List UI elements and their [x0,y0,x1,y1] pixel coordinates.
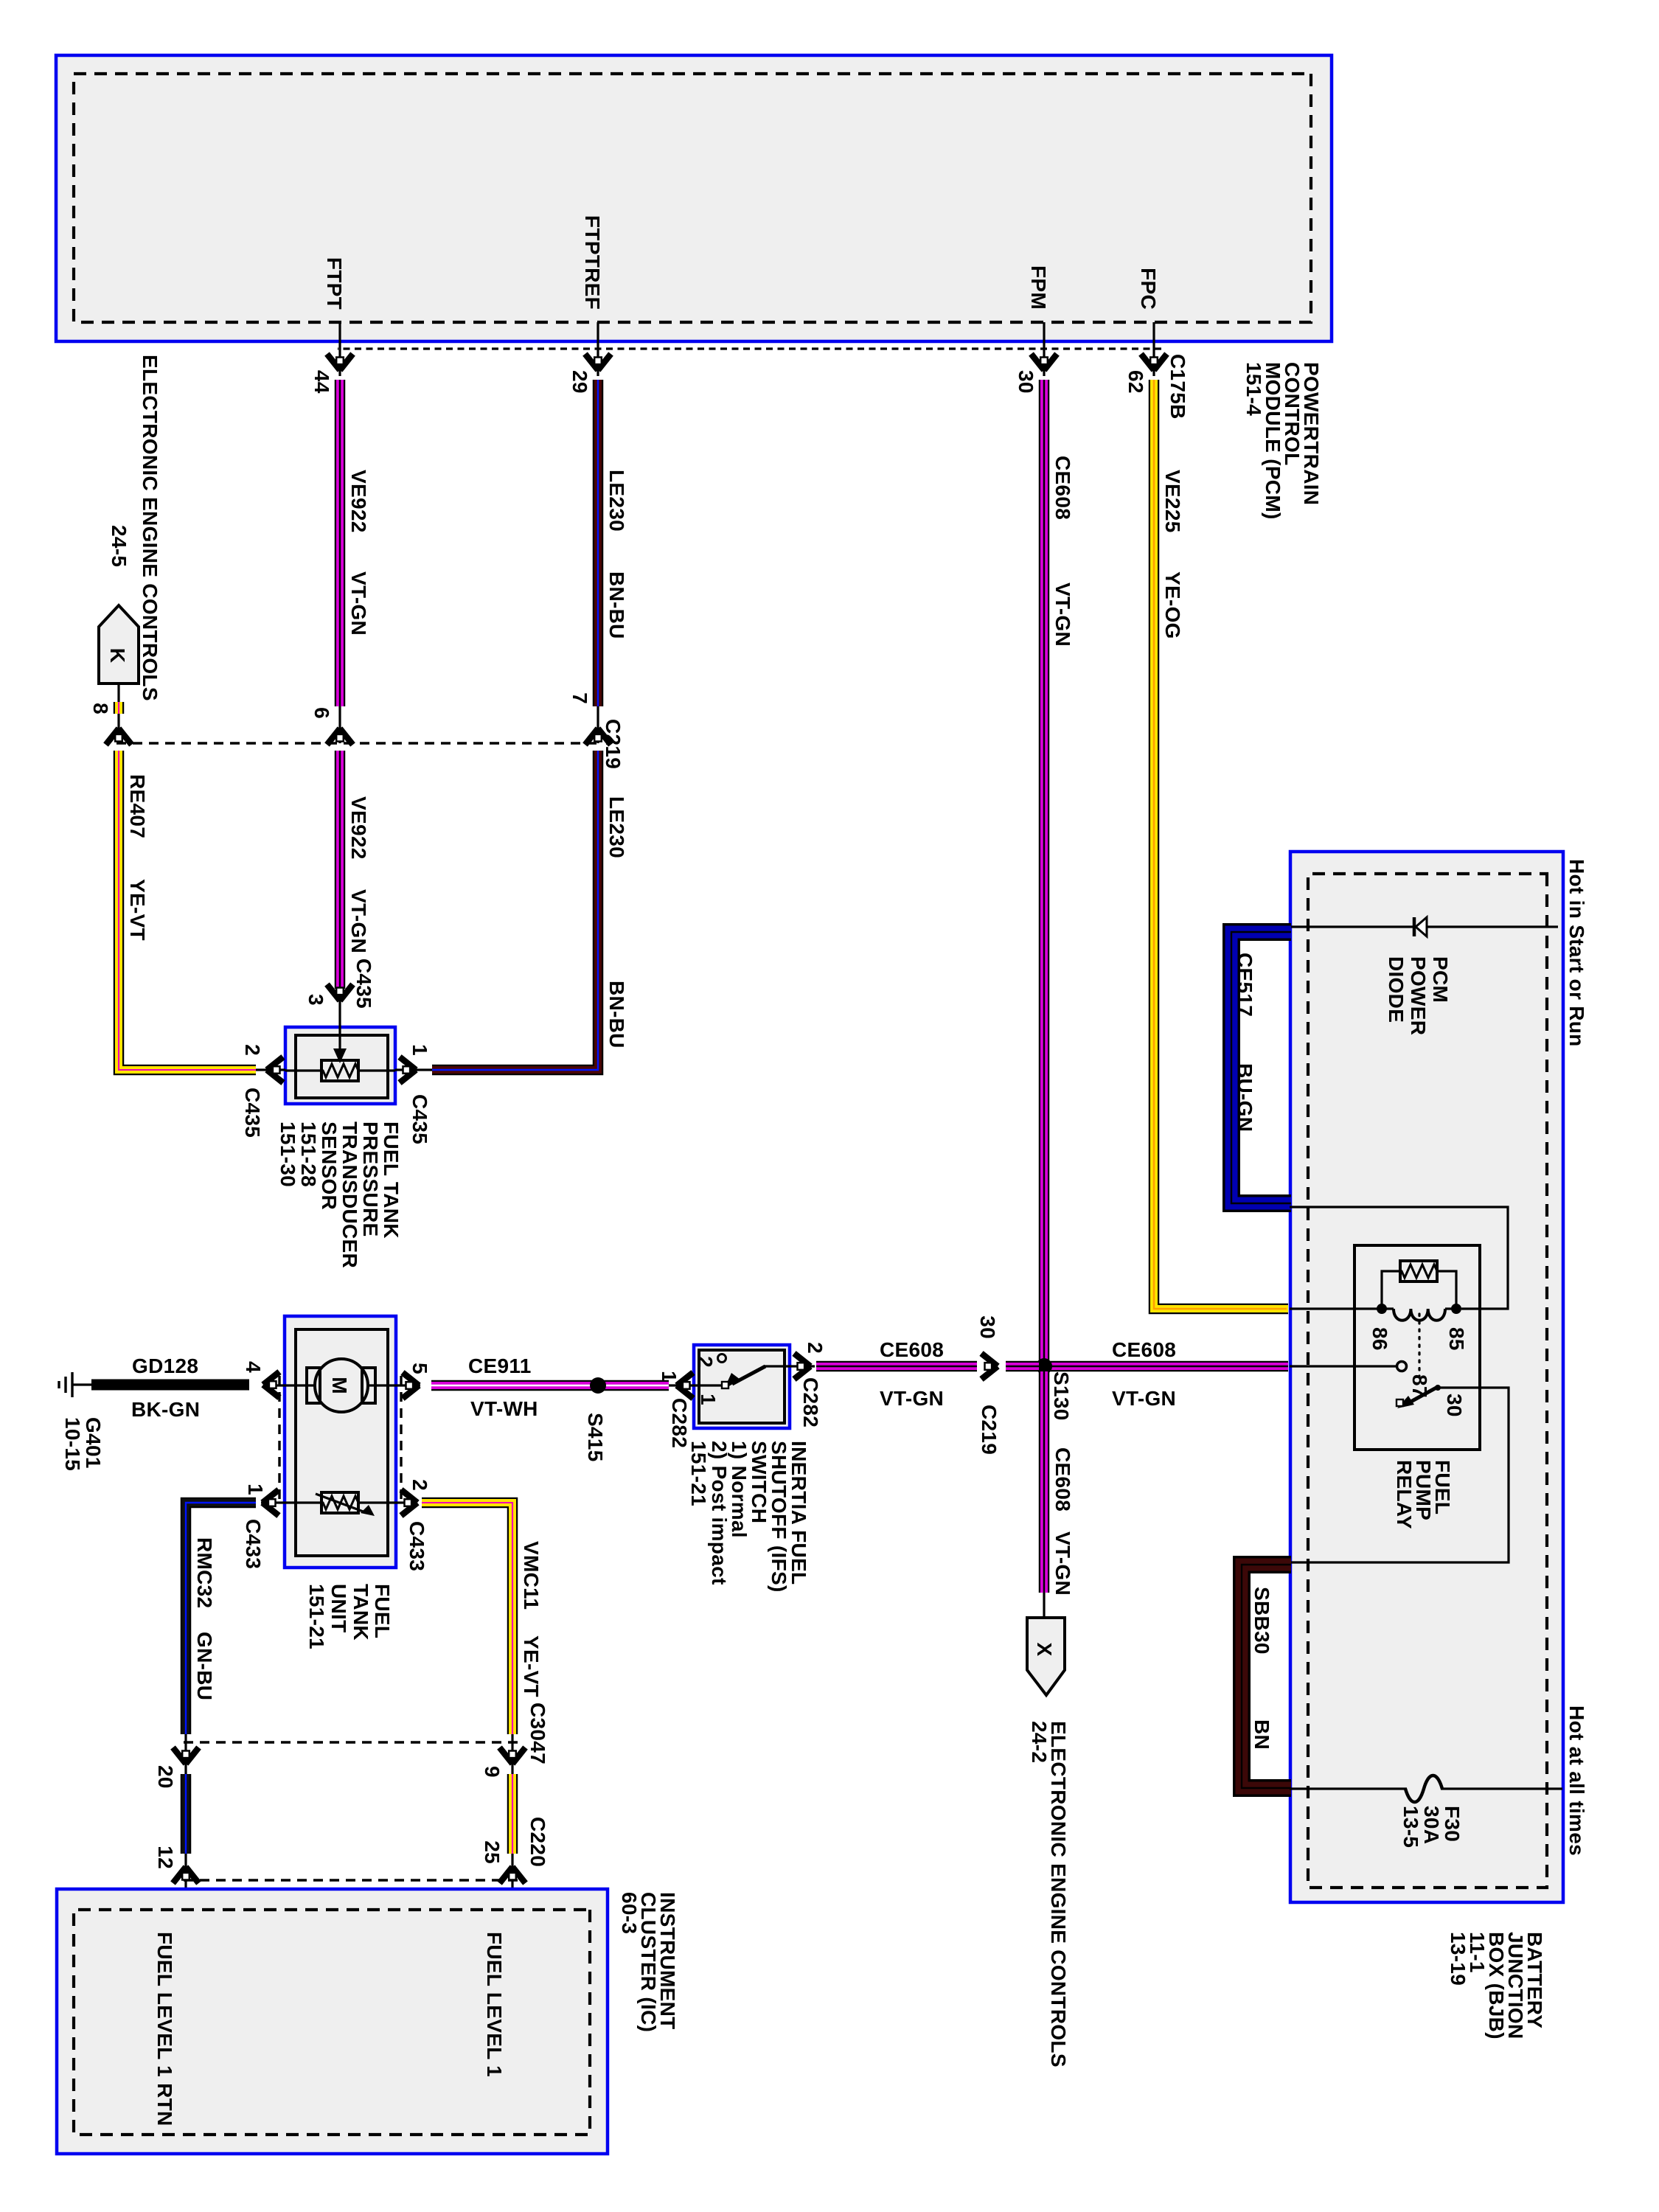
svg-text:CE608: CE608 [1051,1447,1074,1512]
svg-text:TRANSDUCER: TRANSDUCER [338,1121,361,1268]
svg-text:S130: S130 [1050,1371,1073,1421]
svg-text:7: 7 [568,692,591,704]
svg-text:UNIT: UNIT [327,1584,350,1633]
connector C175B dashed line [338,347,1161,349]
svg-text:FUEL LEVEL 1 RTN: FUEL LEVEL 1 RTN [153,1932,176,2126]
splice S130 [1036,1358,1073,1421]
svg-text:C220: C220 [526,1817,549,1867]
svg-text:FTPT: FTPT [323,257,346,310]
svg-text:1: 1 [244,1484,267,1495]
svg-text:VMC11: VMC11 [520,1541,543,1610]
C3047 in-line connector dashed line [180,1741,518,1743]
svg-text:GD128: GD128 [132,1354,198,1377]
svg-text:X: X [1033,1643,1056,1657]
svg-text:YE-VT: YE-VT [126,879,149,941]
svg-text:RE407: RE407 [126,774,149,838]
svg-text:POWER: POWER [1407,956,1430,1035]
wire GD128 BK-GN (pin 4 to ground G401) [91,1380,249,1391]
fuel tank pressure transducer sensor box [285,1027,395,1104]
svg-text:SENSOR: SENSOR [318,1121,341,1210]
svg-text:1: 1 [697,1394,720,1405]
svg-text:CE608: CE608 [1051,456,1074,520]
svg-text:YE-OG: YE-OG [1161,571,1184,639]
fuel tank unit pin 5 [403,1363,431,1398]
svg-text:4: 4 [242,1361,265,1373]
fuel tank unit pin 2 C433 [401,1479,431,1571]
svg-text:2: 2 [241,1044,264,1056]
svg-text:25: 25 [481,1840,504,1864]
svg-text:86: 86 [1368,1327,1391,1351]
connector K (to electronic engine controls 24-5) [99,605,139,702]
C219 in-line connector dashed line [116,742,597,744]
C219 pin 7 arrow [568,692,611,745]
F30 30A 13-5 label [1399,1806,1464,1848]
svg-text:30A: 30A [1420,1806,1443,1844]
svg-text:SWITCH: SWITCH [748,1441,771,1523]
svg-text:2: 2 [408,1479,431,1491]
wire CE517 BU-GN loop (diode to relay pin 85) [1231,932,1291,1203]
svg-text:FUEL: FUEL [371,1584,394,1638]
relay switch blade pin 30 [1397,1385,1466,1417]
svg-text:6: 6 [310,707,333,719]
svg-text:VT-WH: VT-WH [470,1397,538,1420]
svg-text:151-28: 151-28 [297,1121,320,1187]
svg-text:1) Normal: 1) Normal [728,1441,751,1538]
svg-text:FPM: FPM [1027,265,1050,310]
connector X (to electronic engine controls 24-2) [1027,1593,1065,1695]
wire stub YE-VT at K pin 8 [114,702,125,714]
svg-text:ELECTRONIC ENGINE CONTROLS: ELECTRONIC ENGINE CONTROLS [1047,1721,1070,2067]
svg-text:85: 85 [1445,1327,1468,1351]
svg-text:C433: C433 [242,1519,265,1569]
svg-text:C3047: C3047 [526,1703,549,1764]
wire RMC32 GN-BU (fuel tank unit pin 1 to C3047) [186,1503,256,1734]
svg-text:BN-BU: BN-BU [605,981,628,1048]
C219 pin 6 arrow [310,706,353,745]
PCM label [1242,362,1323,520]
svg-text:151-21: 151-21 [687,1441,710,1506]
svg-text:K: K [106,648,129,664]
IFS switch pin 1 C282 [658,1371,694,1448]
svg-text:CE608: CE608 [1112,1338,1176,1361]
svg-text:C175B: C175B [1166,354,1189,420]
fuse F30 30A line [1290,1775,1562,1802]
ground G401 symbol [59,1372,91,1397]
svg-text:13-19: 13-19 [1447,1932,1470,1986]
svg-text:VT-GN: VT-GN [1112,1387,1176,1410]
PCM power diode line [1290,925,1558,928]
BJB inner dashed outline [1308,874,1547,1888]
svg-text:RMC32: RMC32 [193,1537,216,1608]
svg-text:C282: C282 [799,1377,822,1427]
svg-text:CE608: CE608 [880,1338,944,1361]
sensor pin 3 arrow C435 [305,959,375,1027]
PCM power diode symbol [1414,917,1427,936]
svg-text:Hot at all times: Hot at all times [1565,1705,1588,1856]
svg-text:M: M [328,1377,351,1394]
svg-text:2: 2 [694,1356,717,1368]
svg-text:24-5: 24-5 [108,525,131,567]
svg-text:44: 44 [310,370,333,394]
PCM pin FPM 30 [1015,265,1057,394]
PCM pin FTPT 44 [310,257,353,394]
svg-text:YE-VT: YE-VT [520,1635,543,1697]
relay coil parallel resistor [1382,1261,1456,1309]
fuel pump motor M [276,1359,420,1412]
sensor name label [276,1121,403,1268]
BJB label [1447,1932,1546,2039]
svg-text:20: 20 [154,1765,177,1789]
ELECTRONIC ENGINE CONTROLS 24-2 label [1028,1721,1070,2067]
wire VE922 VT-GN segment A (FTPT to C219 pin 6) [335,380,346,706]
svg-text:C219: C219 [602,719,625,769]
svg-text:13-5: 13-5 [1399,1806,1422,1848]
fuel tank unit box [285,1316,396,1568]
svg-text:29: 29 [568,370,591,394]
svg-text:FUEL TANK: FUEL TANK [380,1121,403,1239]
wire CE608 VT-GN (S130 up arm to relay pin 87) [1049,1361,1288,1372]
svg-text:2: 2 [804,1342,827,1354]
wire CE608 VT-GN (S130 right arm to X connector) [1039,1371,1050,1593]
svg-text:30: 30 [1443,1394,1466,1417]
FUEL PUMP RELAY label [1393,1460,1454,1529]
wire VE922 VT-GN segment B (C219 to sensor pin 3) [335,751,346,989]
relay coil with pins 85/86 [1290,1304,1468,1351]
svg-text:PCM: PCM [1429,956,1452,1003]
wire LE230 BN-BU segment A (FTPTREF to C219 pin 7) [593,380,604,706]
svg-text:C435: C435 [241,1088,264,1138]
svg-text:RELAY: RELAY [1393,1460,1416,1529]
ELECTRONIC ENGINE CONTROLS 24-5 label [108,355,161,701]
sensor internal: pressure transducer resistor [285,1027,395,1081]
svg-text:VE225: VE225 [1161,470,1184,533]
svg-text:9: 9 [481,1766,504,1778]
svg-text:3: 3 [305,994,327,1006]
fuel level sender variable resistor [261,1492,413,1516]
svg-text:GN-BU: GN-BU [193,1632,216,1700]
fuel tank unit label [305,1584,394,1649]
svg-text:LE230: LE230 [605,470,628,532]
G401 10-15 label [61,1417,105,1471]
fuel tank unit pin 4 [242,1361,279,1397]
svg-text:Hot in Start or Run: Hot in Start or Run [1565,859,1588,1047]
splice S415 [584,1377,607,1462]
relay pin 87 terminal [1397,1362,1432,1398]
svg-text:VT-GN: VT-GN [347,889,370,953]
wire VE225 YE-OG (FPC to relay coil 86) [1154,380,1288,1309]
svg-text:1: 1 [408,1044,431,1056]
svg-text:TANK: TANK [349,1584,372,1641]
wire VMC11 YE-VT (fuel tank unit pin 2 to C3047) [422,1503,512,1734]
svg-text:62: 62 [1124,370,1147,394]
wire CE608 VT-GN (FPM to S130) [1039,380,1050,1364]
svg-text:24-2: 24-2 [1028,1721,1051,1763]
PCM inner dashed outline [74,74,1311,322]
wire CE911 VT-WH (pin 5 to IFS switch pin 1) [431,1380,669,1391]
svg-text:1: 1 [658,1371,681,1382]
svg-text:BN-BU: BN-BU [605,571,628,639]
svg-text:8: 8 [89,703,112,714]
IFS switch label [687,1441,810,1593]
svg-text:G401: G401 [82,1417,105,1469]
svg-text:ELECTRONIC ENGINE CONTROLS: ELECTRONIC ENGINE CONTROLS [139,355,161,701]
svg-text:VE922: VE922 [347,470,370,533]
svg-text:VT-GN: VT-GN [347,571,370,636]
svg-text:SBB30: SBB30 [1251,1587,1273,1655]
svg-text:C435: C435 [408,1094,431,1144]
sensor pin 2 arrow C435 [241,1044,285,1138]
svg-text:30: 30 [1015,370,1037,394]
svg-text:F30: F30 [1441,1806,1464,1842]
svg-text:60-3: 60-3 [618,1892,641,1934]
svg-text:BN: BN [1251,1719,1273,1750]
svg-text:INERTIA FUEL: INERTIA FUEL [787,1441,810,1585]
svg-text:FTPTREF: FTPTREF [581,215,604,310]
svg-text:C219: C219 [978,1405,1001,1455]
relay pin 30 feed line (to F30 via SBB30) [1290,1388,1509,1562]
svg-text:PRESSURE: PRESSURE [359,1121,382,1237]
svg-text:BK-GN: BK-GN [131,1398,200,1421]
inertia fuel shutoff switch box [694,1345,790,1428]
PCM: powertrain control module box U1 [56,55,1332,341]
svg-text:CE911: CE911 [468,1354,532,1377]
svg-text:2) Post impact: 2) Post impact [708,1441,731,1585]
battery junction box BJB [1290,852,1563,1902]
IFS switch pin 2 C282 [790,1342,827,1427]
svg-text:VT-GN: VT-GN [1051,582,1074,647]
fuel pump relay box [1354,1245,1480,1450]
svg-text:FUEL LEVEL 1: FUEL LEVEL 1 [483,1932,506,2077]
svg-text:FPC: FPC [1137,268,1160,310]
svg-text:10-15: 10-15 [61,1417,84,1471]
svg-text:C433: C433 [406,1521,428,1571]
sensor pin 1 arrow C435 [395,1044,432,1144]
svg-text:30: 30 [976,1315,999,1339]
svg-text:VT-GN: VT-GN [1051,1531,1074,1596]
PCM pin FTPTREF 29 [568,215,611,394]
wire LE230 BN-BU segment B (C219 to sensor pin 1) [432,751,598,1070]
fuel tank unit pin 1 C433 [242,1484,279,1569]
wire SBB30 BN loop (pin 30 feed to fuse F30) [1242,1565,1291,1788]
svg-text:CE517: CE517 [1234,953,1256,1017]
svg-text:5: 5 [408,1363,431,1374]
svg-text:SHUTOFF (IFS): SHUTOFF (IFS) [768,1441,790,1593]
PCM pin FPC 62 [1124,268,1167,394]
svg-text:BU-GN: BU-GN [1234,1063,1256,1132]
svg-text:LE230: LE230 [605,796,628,858]
C3047 pin 9 arrow + stub to C220 pin 25 (YE-VT) [481,1734,526,1778]
instrument cluster label [618,1892,679,2032]
wire RE407 YE-VT (C219 pin 8 to sensor pin 2) [119,751,256,1070]
C220 in-line connector dashed line [180,1879,518,1881]
svg-text:151-30: 151-30 [276,1121,299,1187]
PCM POWER DIODE label [1385,956,1452,1035]
instrument cluster box [57,1889,608,2154]
svg-text:VE922: VE922 [347,796,370,860]
svg-text:151-21: 151-21 [305,1584,328,1649]
svg-text:12: 12 [154,1846,177,1869]
relay actuation dotted line [1418,1314,1420,1377]
svg-text:VT-GN: VT-GN [880,1387,944,1410]
svg-text:151-4: 151-4 [1242,362,1265,416]
relay feed line from CE517 to pin 85 [1290,1207,1508,1309]
C219 in-line connector pin 30 on down arm [976,1315,1001,1455]
C219 pin 8 arrow [89,703,132,745]
svg-text:C435: C435 [352,959,375,1009]
C3047 pin 20 arrow + stub to C220 pin 12 (GN-BU) [154,1734,199,1789]
IFS switch internals [694,1354,790,1405]
wire CE608 VT-GN (S130 down arm to IFS switch pin 2) [1006,1361,1039,1372]
svg-text:DIODE: DIODE [1385,956,1408,1023]
C433 dashed connector lines at fuel tank unit [279,1376,401,1504]
svg-text:S415: S415 [584,1413,607,1462]
